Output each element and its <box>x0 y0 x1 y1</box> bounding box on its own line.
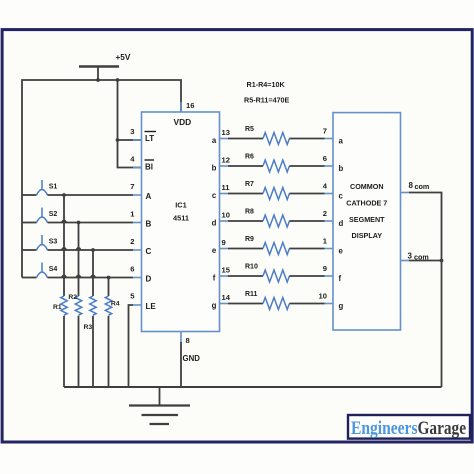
resistor R2 <box>68 294 81 315</box>
svg-text:9: 9 <box>323 264 327 273</box>
svg-text:c: c <box>339 192 344 201</box>
svg-text:B: B <box>146 219 152 228</box>
pin 8 GND stub <box>180 332 182 343</box>
resistor R8 <box>245 209 289 227</box>
svg-text:g: g <box>339 302 344 311</box>
svg-text:3: 3 <box>408 251 413 260</box>
svg-text:LE: LE <box>146 302 157 311</box>
pin 16 VDD stub <box>180 102 182 112</box>
wire IC segment a to resistor R5 <box>228 138 263 140</box>
svg-text:3: 3 <box>130 127 134 136</box>
svg-text:Garage: Garage <box>418 419 467 439</box>
svg-text:DISPLAY: DISPLAY <box>352 231 383 240</box>
svg-text:f: f <box>213 274 216 283</box>
resistor R3 <box>84 296 97 331</box>
pin 6 display stub <box>323 154 333 166</box>
wire hop on row D at x=78.5 <box>76 275 81 277</box>
pin 7 display stub <box>323 127 333 139</box>
resistor R10 <box>245 264 289 282</box>
svg-text:R8: R8 <box>245 209 254 216</box>
wire resistor R8 to display pin 2 <box>289 220 324 222</box>
wire R2 to ground rail <box>78 316 80 387</box>
wire from left bus to switch S2 <box>22 222 37 224</box>
svg-text:S4: S4 <box>49 266 58 273</box>
resistor R7 <box>245 181 289 199</box>
svg-text:R3: R3 <box>84 324 93 331</box>
pin 12 segment b output stub <box>220 155 230 166</box>
wire hop on row C at x=64 <box>62 248 67 250</box>
pin 3 LT stub <box>130 127 141 140</box>
display U2 common cathode 7 segment body <box>333 113 401 330</box>
svg-text:6: 6 <box>130 265 134 274</box>
wire right bus down to ground rail <box>441 261 443 388</box>
wire resistor R5 to display pin 7 <box>289 138 324 140</box>
pin 1 display stub <box>323 237 333 249</box>
svg-text:16: 16 <box>186 101 194 110</box>
wire row C down to R3 <box>92 250 94 296</box>
svg-text:R9: R9 <box>245 236 254 243</box>
pin 5 LE stub <box>130 292 141 306</box>
pin 9 segment e output stub <box>220 238 229 249</box>
svg-text:R11: R11 <box>245 291 258 298</box>
wire row A down to R1 <box>63 195 65 296</box>
resistor R4 <box>105 296 120 315</box>
svg-text:d: d <box>212 219 217 228</box>
svg-text:2: 2 <box>323 209 327 218</box>
wire LT branch <box>118 139 142 141</box>
pin 1 B stub <box>130 210 141 223</box>
pin label LT with overline <box>145 132 157 144</box>
pin label BI with overline <box>145 160 155 172</box>
node junction LT branch <box>116 138 120 142</box>
wire hop on row B at x=64 <box>62 220 67 222</box>
svg-text:e: e <box>212 246 217 255</box>
node junction row A to R1 <box>62 193 66 197</box>
svg-text:R2: R2 <box>68 294 77 301</box>
svg-text:R5: R5 <box>245 126 254 133</box>
svg-text:R1-R4=10K: R1-R4=10K <box>247 80 286 89</box>
svg-text:LT: LT <box>145 134 154 143</box>
pin 3 com stub <box>401 251 429 261</box>
svg-text:g: g <box>212 301 217 310</box>
svg-text:S2: S2 <box>49 211 58 218</box>
pin 4 BI stub <box>130 155 141 168</box>
svg-text:R1: R1 <box>53 304 62 311</box>
wire LT-BI tie vertical <box>118 80 142 168</box>
wire resistor R11 to display pin 10 <box>289 303 324 305</box>
pin 14 segment g output stub <box>220 293 231 304</box>
pin 13 segment a output stub <box>220 128 230 139</box>
svg-text:SEGMENT: SEGMENT <box>349 215 385 224</box>
wire switch S3 to IC pin C <box>48 249 134 251</box>
wire resistor R10 to display pin 9 <box>289 275 324 277</box>
svg-text:a: a <box>212 136 217 145</box>
node junction tie on rail <box>116 78 120 82</box>
wire hop on row D at x=93 <box>91 275 96 277</box>
svg-text:D: D <box>146 274 152 283</box>
svg-text:Engineers: Engineers <box>351 419 418 439</box>
svg-text:+5V: +5V <box>116 53 131 62</box>
svg-text:d: d <box>339 219 344 228</box>
wire from left bus to switch S3 <box>22 249 37 251</box>
pin 9 display stub <box>323 264 333 276</box>
svg-text:c: c <box>212 191 217 200</box>
node junction +5V stub <box>96 78 100 82</box>
svg-text:8: 8 <box>186 336 190 345</box>
wire switch S1 to IC pin A <box>48 194 134 196</box>
svg-text:6: 6 <box>323 154 327 163</box>
pin 10 display stub <box>319 292 333 304</box>
svg-text:e: e <box>339 247 344 256</box>
node junction row D to R4 <box>107 276 111 280</box>
svg-text:9: 9 <box>222 238 226 247</box>
svg-text:10: 10 <box>319 292 327 301</box>
pin 2 C stub <box>130 237 141 250</box>
wire hop on row D at x=64 <box>62 275 67 277</box>
svg-text:CATHODE 7: CATHODE 7 <box>346 198 387 207</box>
pin 8 com stub <box>401 181 430 193</box>
svg-text:A: A <box>146 192 152 201</box>
wire pin 3 com join <box>409 260 442 262</box>
svg-text:2: 2 <box>130 237 134 246</box>
svg-text:b: b <box>212 164 217 173</box>
svg-text:f: f <box>339 274 342 283</box>
svg-text:11: 11 <box>222 183 231 192</box>
wire R1 to ground rail <box>63 316 65 387</box>
wire switch S2 to IC pin B <box>48 222 134 224</box>
svg-text:C: C <box>146 247 152 256</box>
pin 6 D stub <box>130 265 141 278</box>
pin 2 display stub <box>323 209 333 221</box>
pin 11 segment c output stub <box>220 183 231 194</box>
pin 15 segment f output stub <box>220 265 231 276</box>
svg-text:R5-R11=470E: R5-R11=470E <box>244 96 290 105</box>
wire R4 to ground rail <box>108 316 110 387</box>
svg-text:IC1: IC1 <box>175 201 187 210</box>
svg-text:7: 7 <box>323 127 327 136</box>
svg-text:R6: R6 <box>245 154 254 161</box>
wire hop on row C at x=78.5 <box>76 248 81 250</box>
svg-text:4511: 4511 <box>173 214 189 223</box>
wire resistor R9 to display pin 1 <box>289 248 324 250</box>
wire R3 to ground rail <box>92 316 94 387</box>
power +5V supply symbol <box>79 53 131 80</box>
svg-text:R10: R10 <box>245 264 258 271</box>
switch S2 <box>37 208 58 223</box>
svg-text:R7: R7 <box>245 181 254 188</box>
svg-text:COMMON: COMMON <box>350 182 384 191</box>
node junction row C to R3 <box>91 248 95 252</box>
EngineersGarage logo <box>348 415 470 439</box>
svg-text:R4: R4 <box>111 301 120 308</box>
wire row B down to R2 <box>78 223 80 297</box>
resistor R1 <box>53 296 67 315</box>
svg-text:8: 8 <box>409 181 414 190</box>
resistor R9 <box>245 236 289 254</box>
svg-text:S3: S3 <box>49 239 58 246</box>
wire ground rail <box>64 386 442 388</box>
op IC U1 4511 body <box>142 112 220 332</box>
switch S1 <box>37 180 58 195</box>
wire IC segment f to resistor R10 <box>228 275 263 277</box>
svg-text:10: 10 <box>222 210 230 219</box>
pin 7 A stub <box>130 182 141 195</box>
svg-text:14: 14 <box>222 293 231 302</box>
svg-text:BI: BI <box>145 163 153 172</box>
switch S4 <box>37 263 58 278</box>
wire GND pin to rail <box>180 342 182 387</box>
svg-text:S1: S1 <box>49 184 58 191</box>
node junction com bus <box>440 259 444 263</box>
svg-text:15: 15 <box>222 265 231 274</box>
wire IC segment b to resistor R6 <box>228 165 263 167</box>
resistor R6 <box>245 154 289 172</box>
svg-text:13: 13 <box>222 128 230 137</box>
node junction row B to R2 <box>77 221 81 225</box>
wire resistor R6 to display pin 6 <box>289 165 324 167</box>
svg-text:12: 12 <box>222 155 230 164</box>
resistor R11 <box>245 291 289 309</box>
wire IC pin LE down to ground rail <box>129 305 134 387</box>
svg-text:GND: GND <box>183 354 201 363</box>
resistor R5 <box>245 126 289 144</box>
wire row D down to R4 <box>108 278 110 297</box>
pin 4 display stub <box>323 182 333 194</box>
wire from left bus to switch S4 <box>22 277 37 279</box>
wire IC segment e to resistor R9 <box>228 248 263 250</box>
wire IC segment g to resistor R11 <box>228 303 263 305</box>
wire IC segment c to resistor R7 <box>228 193 263 195</box>
svg-text:b: b <box>339 164 344 173</box>
svg-text:a: a <box>339 137 344 146</box>
wire pin 8 com to right bus <box>409 193 442 261</box>
pin 10 segment d output stub <box>220 210 230 221</box>
svg-text:7: 7 <box>130 182 134 191</box>
wire resistor R7 to display pin 4 <box>289 193 324 195</box>
wire switch S4 to IC pin D <box>48 277 134 279</box>
ground symbol <box>129 387 190 424</box>
switch S3 <box>37 235 58 250</box>
svg-text:VDD: VDD <box>174 117 192 127</box>
wire +5V rail horizontal <box>22 80 181 278</box>
wire from left bus to switch S1 <box>22 194 37 196</box>
svg-text:com: com <box>415 182 430 191</box>
wire IC segment d to resistor R8 <box>228 220 263 222</box>
